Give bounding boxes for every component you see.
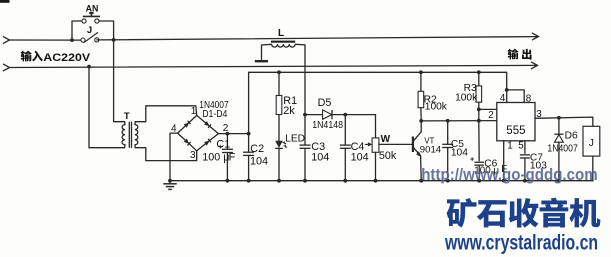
svg-text:1N4148: 1N4148 <box>312 120 343 131</box>
svg-text:1: 1 <box>191 106 197 117</box>
svg-text:9014: 9014 <box>420 144 442 155</box>
svg-text:104: 104 <box>351 151 369 163</box>
diode D4 arm 3-2 <box>204 141 210 146</box>
diode D3 arm 4-3 <box>184 139 189 144</box>
node VT emitter ground <box>419 179 423 183</box>
wire collector rail to 555 <box>421 120 497 122</box>
node C7 ground <box>523 179 527 183</box>
svg-text:C2: C2 <box>250 143 264 155</box>
node R1 top <box>277 70 281 74</box>
wire pin1 to ground <box>503 141 505 181</box>
node C4 top <box>343 113 347 117</box>
svg-text:AC220V: AC220V <box>43 52 91 64</box>
node D6 ground <box>557 179 561 183</box>
svg-text:C1: C1 <box>216 139 230 151</box>
node D6 cathode <box>557 116 561 120</box>
node C1 top <box>226 132 230 136</box>
wire pin2 to 555 <box>479 108 497 110</box>
LED <box>275 141 283 148</box>
node pin4 junction <box>505 88 509 92</box>
capacitor C1 <box>226 134 228 150</box>
output arrow top line <box>532 33 539 40</box>
node LED ground <box>277 179 281 183</box>
node C2 ground <box>247 179 251 183</box>
op-amp 555 IC box <box>497 103 535 141</box>
svg-text:555: 555 <box>506 125 525 137</box>
input arrow bottom line <box>3 64 10 71</box>
node C1 ground <box>226 179 230 183</box>
svg-text:+: + <box>470 156 474 163</box>
wire R3 junction down <box>478 109 480 120</box>
node pin1 ground <box>502 179 506 183</box>
svg-text:L: L <box>278 28 284 39</box>
scan smudge top-left corner <box>0 0 10 3</box>
svg-text:5: 5 <box>518 141 524 152</box>
relay coil J box <box>583 126 600 156</box>
svg-text:2k: 2k <box>283 105 295 117</box>
svg-text:4: 4 <box>500 93 506 104</box>
label input 输入AC220V <box>21 51 43 62</box>
node ground left junction <box>168 179 172 183</box>
wire D5 line <box>305 114 376 116</box>
svg-text:J: J <box>87 25 92 36</box>
logo 矿石收音机 <box>447 198 601 228</box>
svg-text:1N4007: 1N4007 <box>547 143 578 154</box>
svg-text:LED: LED <box>285 133 305 144</box>
node R3 bottom junction <box>477 108 481 112</box>
node W ground <box>374 179 378 183</box>
pushbutton AN <box>82 19 86 23</box>
wire to potentiometer W <box>375 115 377 138</box>
diode D2 arm 1-2 <box>204 121 209 126</box>
capacitor C7 <box>524 141 526 154</box>
wire DC positive rail <box>248 72 250 133</box>
capacitor C3 <box>304 115 306 145</box>
node R3 top <box>477 70 481 74</box>
node switch right junction <box>112 38 116 42</box>
transistor VT 9014 <box>412 137 414 153</box>
svg-text:F: F <box>229 152 236 164</box>
svg-text:W: W <box>381 134 391 145</box>
wire AN branch <box>72 21 82 40</box>
wire secondary top to bridge node 1 <box>135 106 196 122</box>
capacitor C4 <box>344 115 346 145</box>
svg-text:100k: 100k <box>425 102 448 113</box>
node C5 ground <box>446 179 450 183</box>
relay contact J <box>81 38 85 42</box>
svg-text:http://www.go-gddg.com: http://www.go-gddg.com <box>421 165 598 184</box>
svg-text:D1-D4: D1-D4 <box>202 109 227 120</box>
svg-text:AN: AN <box>86 4 99 14</box>
node C5 top <box>446 119 450 123</box>
svg-text:D5: D5 <box>318 97 332 109</box>
wire top AC line left segment <box>10 39 82 41</box>
svg-text:D6: D6 <box>565 131 578 142</box>
node C6 ground <box>477 179 481 183</box>
capacitor C2 <box>248 134 250 153</box>
node R2 top <box>419 70 423 74</box>
node rail R3 junction <box>477 119 481 123</box>
svg-text:3: 3 <box>190 150 196 161</box>
node C2 top junction <box>247 132 251 136</box>
node collector junction <box>419 119 423 123</box>
wire top AC line to output <box>97 37 537 40</box>
diode D1 arm 4-1 <box>184 123 189 128</box>
diode D6 <box>558 118 560 134</box>
inductor L bar <box>271 41 295 43</box>
wire node4 to ground <box>170 133 178 181</box>
wire neutral to primary bottom <box>89 67 125 148</box>
svg-text:100 μ: 100 μ <box>202 152 229 164</box>
svg-text:104: 104 <box>451 147 468 158</box>
potentiometer W wiper <box>365 143 370 145</box>
label output 输出 <box>508 49 532 60</box>
svg-text:104: 104 <box>250 155 268 167</box>
svg-text:100k: 100k <box>455 93 478 104</box>
wire relay to ground <box>592 156 594 181</box>
svg-text:www.crystalradio.cn: www.crystalradio.cn <box>444 231 598 255</box>
inductor L coil <box>272 44 278 47</box>
wire pin3 output <box>535 117 593 126</box>
bridge rectifier D1-D4 frame <box>178 115 219 150</box>
node transformer neutral junction <box>87 65 91 69</box>
svg-text:8: 8 <box>526 93 532 104</box>
svg-text:1: 1 <box>507 141 512 152</box>
wire secondary bottom to bridge node 3 <box>135 148 196 161</box>
potentiometer W body <box>372 138 379 152</box>
node D5 anode C3 <box>303 113 307 117</box>
node switch left junction <box>70 38 74 42</box>
capacitor C5 <box>447 121 449 144</box>
svg-text:50k: 50k <box>379 150 397 162</box>
transformer T <box>124 122 126 125</box>
input arrow top line <box>3 36 10 43</box>
svg-text:T: T <box>124 111 130 122</box>
capacitor C6 <box>478 121 480 161</box>
node C3 ground <box>303 179 307 183</box>
wire W wiper to base <box>379 143 412 145</box>
output arrow bottom line <box>531 62 538 69</box>
svg-text:2: 2 <box>488 110 493 121</box>
wire switch to primary top <box>114 40 125 122</box>
wire L left lead to plate <box>262 44 272 60</box>
resistor R2 <box>420 72 422 91</box>
svg-text:104: 104 <box>311 151 329 163</box>
ground symbol <box>169 181 171 184</box>
wire bridge node2 to C2 rail <box>218 133 248 135</box>
ground rail <box>170 180 593 182</box>
wire bottom AC line <box>10 65 537 67</box>
wire pin4 pin8 supply <box>506 90 508 103</box>
wire W bottom to ground <box>375 152 377 180</box>
plate terminal under L <box>255 60 268 62</box>
node C4 ground <box>343 179 347 183</box>
resistor R1 <box>278 72 280 95</box>
resistor R3 <box>478 72 480 86</box>
svg-text:J: J <box>589 138 594 149</box>
diode D5 <box>323 110 332 119</box>
wire L right lead down <box>295 44 305 114</box>
